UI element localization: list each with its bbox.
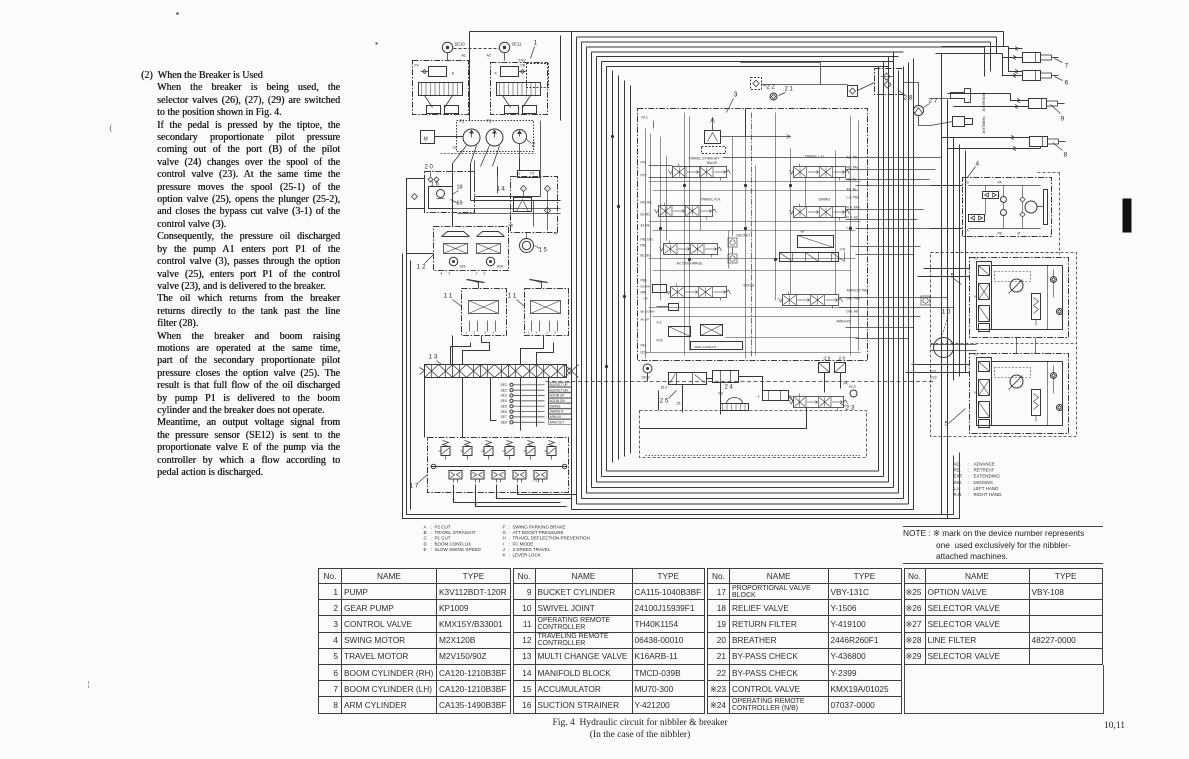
bucket line check valves	[728, 238, 737, 247]
svg-text:A2: A2	[554, 232, 558, 236]
svg-text:SE8: SE8	[501, 420, 508, 424]
svg-text:E: E	[424, 547, 427, 552]
wire: control valve internal verticals	[646, 113, 859, 359]
svg-text:G: G	[503, 530, 507, 535]
operating remote controller 11 (left)	[462, 289, 507, 336]
svg-text:2 4: 2 4	[725, 385, 734, 391]
svg-text:4: 4	[493, 331, 495, 335]
swing motor make-up checks	[1001, 197, 1007, 203]
svg-text:BUCKET: BUCKET	[737, 234, 751, 238]
figure caption line 1	[440, 718, 840, 728]
svg-text:YB: YB	[974, 353, 978, 357]
svg-text:ARM CONFLUX: ARM CONFLUX	[695, 345, 717, 349]
parts table group 1	[318, 568, 511, 714]
svg-text:9: 9	[1061, 116, 1065, 123]
svg-text:SE13: SE13	[849, 385, 857, 389]
svg-text:PA: PA	[998, 181, 1003, 185]
svg-text:RETREAT: RETREAT	[974, 468, 995, 473]
swing motor	[1025, 201, 1037, 213]
svg-text:SE2: SE2	[501, 388, 508, 392]
svg-text:1: 1	[466, 331, 468, 335]
svg-text:SE11: SE11	[512, 42, 523, 47]
relief valve 18 (check in box)	[848, 86, 858, 97]
svg-text:RE. PA1: RE. PA1	[847, 166, 859, 170]
legend A-K function list	[424, 525, 590, 558]
svg-text::: :	[968, 486, 969, 491]
svg-text:2 5: 2 5	[660, 398, 669, 405]
wire: control valve internal horizontals	[646, 182, 861, 353]
svg-text:BOOM: BOOM	[744, 284, 755, 288]
wire: far-left return lines	[403, 209, 948, 519]
svg-text:L.H. PB3: L.H. PB3	[847, 196, 860, 200]
svg-text::: :	[968, 462, 969, 467]
svg-text:SE10: SE10	[455, 42, 466, 47]
svg-text::: :	[509, 547, 510, 552]
svg-text:3-1: 3-1	[657, 321, 662, 325]
svg-text:I: I	[503, 541, 504, 546]
svg-text:-2 9: -2 9	[823, 356, 831, 361]
svg-text:ARM EXT.: ARM EXT.	[837, 320, 852, 324]
wire: mid-left distribution	[425, 121, 561, 438]
svg-text:1 3: 1 3	[429, 354, 438, 361]
svg-text:SE7: SE7	[501, 415, 508, 419]
wire: controller pilot lines to multi change valve	[451, 336, 554, 365]
svg-text:PB: PB	[998, 232, 1002, 236]
svg-text:2 6: 2 6	[839, 356, 846, 361]
svg-text:PBb: PBb	[641, 279, 647, 283]
pressure sensor SE10	[442, 42, 452, 52]
arm line check	[921, 296, 930, 305]
gear pump (item 2)	[513, 130, 527, 144]
svg-text:B: B	[424, 530, 427, 535]
svg-text:E: E	[453, 498, 455, 502]
svg-text:FC MODE: FC MODE	[513, 541, 534, 546]
page number	[1104, 721, 1125, 731]
svg-text:SE3: SE3	[501, 394, 508, 398]
svg-text::: :	[509, 530, 510, 535]
pump suction dotted box	[457, 121, 534, 152]
travel motor block L.H. (5)	[970, 354, 1069, 434]
svg-text:SWING: SWING	[550, 404, 561, 408]
swing motor relief pair upper	[983, 192, 999, 199]
swing priority block	[798, 236, 834, 248]
svg-text:D: D	[424, 541, 428, 546]
svg-text:YA: YA	[974, 295, 978, 299]
svg-text:PB: PB	[521, 64, 526, 68]
svg-text:¦: ¦	[88, 682, 90, 689]
svg-text::: :	[968, 468, 969, 473]
svg-text:SE6: SE6	[501, 410, 508, 414]
svg-text:4: 4	[555, 331, 557, 335]
svg-text:(: (	[110, 124, 113, 133]
svg-text:BUCKET DN: BUCKET DN	[550, 388, 569, 392]
travel motors dashed boundary	[931, 253, 1077, 437]
svg-text:A3: A3	[517, 172, 521, 176]
svg-text:YB: YB	[974, 257, 978, 261]
svg-text::: :	[431, 536, 432, 541]
svg-text:AD.: AD.	[954, 462, 962, 467]
svg-text::: :	[968, 480, 969, 485]
svg-text::: :	[509, 525, 510, 530]
svg-text:6: 6	[1065, 80, 1069, 87]
svg-text:TRAVEL L.H.: TRAVEL L.H.	[805, 155, 825, 159]
svg-text:2 8: 2 8	[904, 95, 913, 102]
svg-text:1: 1	[534, 40, 538, 47]
svg-text:AD. BL: AD. BL	[847, 188, 857, 192]
figure caption line 2	[440, 730, 840, 740]
pump regulator box E (left)	[413, 61, 469, 115]
svg-text:19: 19	[457, 201, 463, 207]
line filter 28	[875, 69, 904, 95]
svg-text:7: 7	[1065, 63, 1069, 70]
svg-text::: :	[431, 547, 432, 552]
wire: sensor pilot dashes A1-A2	[454, 48, 500, 50]
svg-text:ADVANCE: ADVANCE	[974, 462, 995, 467]
svg-text:P2: P2	[534, 479, 538, 483]
sensor SE in controller 12 (left)	[449, 257, 457, 265]
wire: top bundle bends into cylinder feeds	[985, 32, 1004, 77]
wire: travel motor feeds	[906, 269, 1036, 373]
wire bundle: secondary verticals (left of control valve)	[613, 71, 631, 463]
pump regulator box F (right)	[491, 63, 548, 115]
parts table group 3	[707, 568, 902, 714]
traveling remote controller 12	[434, 227, 509, 271]
nibbler attachment symbol	[953, 117, 965, 127]
svg-text:2: 2	[547, 331, 549, 335]
svg-text:SWING R: SWING R	[550, 410, 565, 414]
svg-text::: :	[431, 541, 432, 546]
svg-text:A: A	[758, 395, 760, 399]
svg-text:RIGHT HAND: RIGHT HAND	[974, 492, 1003, 497]
svg-text:A1: A1	[462, 54, 466, 58]
svg-text:DIG. PA8: DIG. PA8	[847, 297, 860, 301]
junction dots	[683, 184, 685, 186]
pilot dashed box (tank line)	[640, 411, 867, 458]
svg-text:RE.: RE.	[954, 468, 962, 473]
svg-text:Ab UP: Ab UP	[641, 318, 650, 322]
wire bundle: concentric supply/return loops	[572, 32, 1004, 510]
svg-text:A2: A2	[487, 54, 491, 58]
empty table extension group 4	[904, 665, 1104, 714]
svg-text:1 5: 1 5	[539, 248, 548, 254]
svg-text:EC2: EC2	[931, 376, 937, 380]
sensor SE in controller 12 (right)	[486, 257, 494, 265]
svg-text:4: 4	[441, 272, 443, 276]
svg-text:ARM OUT: ARM OUT	[550, 420, 565, 424]
multi change valve 13	[425, 365, 567, 378]
svg-text:R.H. A3: R.H. A3	[847, 216, 858, 220]
boom cylinder LH (6)	[1023, 71, 1041, 81]
svg-text:NIBBLER: NIBBLER	[982, 117, 987, 134]
svg-text:K: K	[503, 553, 506, 558]
svg-text:TRAVEL STRAIGHT: TRAVEL STRAIGHT	[689, 157, 720, 161]
accumulator 15	[520, 239, 534, 253]
svg-text:SWING: SWING	[819, 198, 831, 202]
parts table group 2	[513, 568, 706, 714]
travel motor block R.H. (5)	[970, 258, 1069, 338]
svg-text::: :	[968, 474, 969, 479]
arm cylinder (9)	[1029, 99, 1047, 109]
svg-text:R.H.: R.H.	[954, 492, 963, 497]
svg-text:A: A	[967, 229, 970, 233]
svg-text:SE5: SE5	[501, 404, 508, 408]
return filter 19 symbol	[429, 187, 453, 209]
note about asterisk mark	[903, 526, 1103, 564]
swivel joint 10	[934, 338, 954, 358]
wire: spool port lines to right bundle	[723, 158, 963, 339]
wire: top-left feeder bends	[470, 32, 572, 121]
svg-text:1: 1	[528, 331, 530, 335]
svg-text:SE4: SE4	[501, 399, 508, 403]
wire: attachment connections	[741, 63, 953, 126]
svg-text:P1: P1	[531, 172, 535, 176]
svg-text:BREAKER: BREAKER	[982, 93, 987, 112]
svg-text:YA: YA	[974, 391, 978, 395]
wire: pump discharge lines down	[453, 144, 520, 201]
svg-text::: :	[509, 536, 510, 541]
pressure sensor SE12	[643, 364, 652, 373]
svg-text:LEVER LOCK: LEVER LOCK	[513, 553, 541, 558]
svg-text:FSV: FSV	[519, 59, 527, 63]
suction strainer 16 box	[425, 172, 475, 213]
svg-text:M: M	[424, 137, 428, 143]
svg-text:PA1 RE.: PA1 RE.	[641, 201, 653, 205]
arm conflux valve	[691, 342, 743, 350]
svg-text:LEFT HAND: LEFT HAND	[974, 486, 1000, 491]
svg-text:H: H	[503, 536, 506, 541]
wire: bottom-center pilot connections	[640, 109, 841, 429]
svg-text:C: C	[496, 495, 499, 499]
wire: swing motor ports	[931, 181, 1041, 236]
left explanatory paragraph	[141, 70, 340, 479]
wire: dashed sensor signal line	[546, 381, 936, 383]
svg-text:SLOW SWING SPEED: SLOW SWING SPEED	[435, 547, 482, 552]
svg-text:ATT BOOST PRESSURE: ATT BOOST PRESSURE	[513, 530, 564, 535]
svg-text:: E: : E	[450, 71, 455, 76]
svg-text::: :	[509, 541, 510, 546]
svg-text:BUCKET UP: BUCKET UP	[550, 383, 568, 387]
svg-text:A: A	[424, 525, 427, 530]
svg-text:B: B	[967, 181, 969, 185]
svg-text:SE1: SE1	[501, 383, 508, 387]
breaker circuit dashed boundary (right)	[931, 173, 1060, 255]
svg-text:2-SPEED TRAVEL: 2-SPEED TRAVEL	[513, 547, 551, 552]
svg-text:PCb: PCb	[657, 339, 663, 343]
svg-text:Bc DIG.: Bc DIG.	[641, 254, 652, 258]
svg-text:P2 CUT: P2 CUT	[435, 525, 451, 530]
wire: cylinder head-side feed lines	[936, 47, 1041, 151]
parts table group 4	[904, 568, 1104, 665]
svg-text:EXTENDING: EXTENDING	[974, 474, 1001, 479]
by-pass check 21	[770, 93, 777, 100]
svg-text:3: 3	[536, 331, 538, 335]
svg-text:EXT.: EXT.	[954, 474, 964, 479]
operating remote controller 11 (right)	[525, 289, 569, 336]
svg-text:Bb DOWN: Bb DOWN	[641, 310, 655, 314]
svg-text:1 1: 1 1	[444, 293, 453, 300]
svg-text:PBc DIG.: PBc DIG.	[641, 238, 654, 242]
svg-text:SWING PARKING BRAKE: SWING PARKING BRAKE	[513, 525, 566, 530]
registration tab mark (right edge)	[1123, 199, 1132, 233]
svg-text:VALVE: VALVE	[707, 161, 718, 165]
svg-text::: :	[431, 525, 432, 530]
svg-text:F: F	[495, 71, 498, 76]
svg-text:PB: PB	[509, 224, 514, 228]
svg-text::: :	[968, 492, 969, 497]
svg-text:DIG. A8: DIG. A8	[847, 310, 858, 314]
by-pass check 27	[914, 106, 924, 116]
svg-text:3: 3	[474, 331, 476, 335]
scan noise marks	[88, 13, 378, 689]
svg-text:SE...: SE...	[453, 146, 460, 150]
breaker pedal valve A-B	[763, 391, 789, 401]
svg-text:2 1: 2 1	[785, 87, 794, 93]
bucket cylinder (8)	[1030, 137, 1048, 147]
svg-text:TRAVEL R.H.: TRAVEL R.H.	[701, 198, 722, 202]
svg-text:1: 1	[476, 272, 478, 276]
svg-text:B: B	[517, 491, 519, 495]
sensor SE13	[850, 390, 857, 397]
svg-text:P1 CUT: P1 CUT	[435, 536, 451, 541]
arm regen valve	[780, 253, 839, 262]
svg-text:BOOM CONFLUX: BOOM CONFLUX	[435, 541, 472, 546]
option valve 25 spool 25-1	[713, 371, 739, 383]
svg-text:25-2: 25-2	[661, 386, 668, 390]
svg-text::: :	[431, 530, 432, 535]
svg-text:3: 3	[734, 92, 738, 99]
legend AD/RE/EXT/DIG/LH/RH	[954, 462, 1003, 498]
wire bundle: outer return bends (bottom-right)	[942, 453, 960, 519]
pressure sensor list SE1-SE8	[501, 382, 572, 424]
svg-text:2: 2	[484, 272, 486, 276]
manifold block 14	[511, 177, 558, 233]
svg-text:D: D	[475, 503, 478, 507]
pressure sensor SE11	[499, 42, 509, 52]
svg-text:1 0: 1 0	[942, 309, 951, 316]
svg-text:ARM EXT. PB2: ARM EXT. PB2	[847, 289, 869, 293]
svg-text:M: M	[1018, 232, 1021, 236]
swing motor relief pair lower	[969, 215, 985, 222]
svg-text:8: 8	[1064, 152, 1068, 159]
svg-text:2 0: 2 0	[425, 165, 434, 171]
svg-text:3: 3	[449, 272, 451, 276]
svg-text:P.B: P.B	[841, 248, 846, 252]
control valve 3 dash-dot boundary	[638, 109, 868, 361]
wire: block 17 output lines	[453, 485, 577, 507]
electric motor M box	[421, 131, 435, 144]
svg-text:DIGGING: DIGGING	[974, 480, 994, 485]
svg-text:2: 2	[485, 331, 487, 335]
svg-text:ARM IN: ARM IN	[550, 415, 562, 419]
svg-text:DIG: DIG	[954, 480, 963, 485]
svg-text:C: C	[424, 536, 428, 541]
proportional valve block 17	[428, 438, 569, 493]
svg-text:2 2: 2 2	[767, 85, 776, 91]
svg-text:Wt: Wt	[801, 230, 805, 234]
svg-text:1 2: 1 2	[417, 264, 426, 271]
control valve 23	[794, 397, 844, 408]
svg-text::: :	[509, 553, 510, 558]
svg-text:SE12: SE12	[642, 376, 650, 380]
swing motor block 4 boundary	[963, 178, 1052, 237]
svg-text:R.H. PA3: R.H. PA3	[847, 206, 860, 210]
svg-text:J: J	[503, 547, 505, 552]
selector valves 29 / 26	[819, 363, 830, 373]
svg-text:18: 18	[457, 185, 463, 191]
svg-text:L.H: L.H	[954, 486, 961, 491]
svg-text:1 1: 1 1	[508, 293, 517, 300]
svg-text:4: 4	[976, 161, 980, 168]
svg-text:F: F	[503, 525, 506, 530]
swing parking brake	[1044, 190, 1048, 225]
svg-text:SE8: SE8	[497, 265, 503, 269]
svg-text:P2: P2	[415, 64, 419, 68]
svg-text:BOOM UP: BOOM UP	[550, 394, 565, 398]
by-pass check 22	[751, 78, 762, 90]
svg-text:PL1: PL1	[642, 116, 648, 120]
wire bundle: attachment feed verticals (right)	[942, 54, 966, 519]
svg-text:TRAVEL DEFLECTION PREVENTION: TRAVEL DEFLECTION PREVENTION	[513, 536, 590, 541]
svg-text:TRAVEL STRAIGHT: TRAVEL STRAIGHT	[435, 530, 476, 535]
svg-text:5: 5	[945, 421, 949, 428]
breaker attachment symbol	[951, 89, 971, 103]
svg-text:SE9: SE9	[460, 265, 466, 269]
svg-text:BOOM DN: BOOM DN	[550, 399, 566, 403]
boom cylinder RH (7)	[1023, 53, 1041, 63]
